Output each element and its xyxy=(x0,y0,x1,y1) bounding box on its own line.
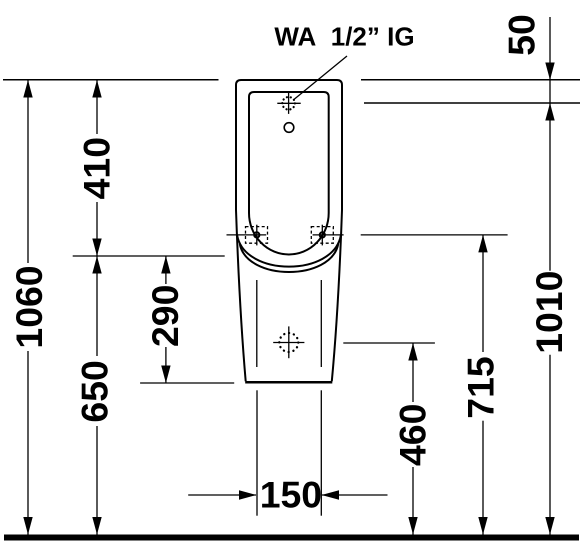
arrow 1010 bottom xyxy=(545,517,554,535)
rim underside lower curve xyxy=(240,244,338,272)
arrow 650 top xyxy=(92,256,101,274)
arrow 150 right xyxy=(322,490,340,499)
water inlet crosshair WA xyxy=(277,92,300,114)
extension line 150 right xyxy=(320,390,322,515)
spigot hidden line left xyxy=(256,280,258,367)
arrow 290 bottom xyxy=(161,366,170,384)
mounting hole left xyxy=(246,225,268,246)
spigot hidden line right xyxy=(320,280,322,367)
arrow 460 bottom xyxy=(408,517,417,535)
svg-text:50: 50 xyxy=(501,14,543,56)
svg-text:650: 650 xyxy=(74,360,116,422)
svg-text:460: 460 xyxy=(391,404,433,466)
dimension line 50-1010 xyxy=(549,17,551,535)
extension line 150 left xyxy=(256,390,258,515)
arrow 50 down xyxy=(545,63,554,81)
arrow 150 left xyxy=(239,490,257,499)
dimension line 715 xyxy=(482,235,484,535)
arrow 290 top xyxy=(161,256,170,274)
svg-text:WA 1/2” IG: WA 1/2” IG xyxy=(274,21,414,51)
flush hole crosshair xyxy=(273,326,304,358)
extension line 715 top xyxy=(361,234,508,236)
urinal outer body silhouette xyxy=(236,80,342,210)
arrow 410 top xyxy=(92,80,101,98)
dimension line 1060 xyxy=(27,80,29,535)
mounting hole right xyxy=(311,225,333,246)
arrow 650 bottom xyxy=(92,517,101,535)
dimension line 460 xyxy=(412,343,414,535)
wall top line right xyxy=(361,79,580,81)
svg-text:410: 410 xyxy=(76,137,118,199)
arrow 715 top xyxy=(478,235,487,253)
mounting hole axis line right short xyxy=(313,234,344,236)
rim underside upper curve xyxy=(237,236,341,267)
extension line flush hole right xyxy=(343,342,435,344)
arrow 715 bottom xyxy=(478,517,487,535)
mounting hole axis line left xyxy=(227,234,267,236)
urinal body right taper xyxy=(332,210,342,381)
floor line xyxy=(4,535,579,541)
dimension line 410-650 xyxy=(96,80,98,535)
svg-text:290: 290 xyxy=(144,285,186,347)
arrow 1060 top xyxy=(23,80,32,98)
urinal inner rim xyxy=(249,92,329,255)
arrow 1060 bottom xyxy=(23,517,32,535)
dimension line 290 xyxy=(165,256,167,383)
wall second line right xyxy=(364,102,580,104)
svg-text:715: 715 xyxy=(460,356,502,418)
arrow 460 top xyxy=(408,343,417,361)
extension line rim bottom left xyxy=(73,255,225,257)
svg-text:150: 150 xyxy=(260,473,322,515)
svg-text:1060: 1060 xyxy=(8,265,50,348)
arrow 410 bottom xyxy=(92,239,101,257)
arrow 1010 top xyxy=(545,103,554,121)
leader line WA xyxy=(294,56,347,99)
dimension line 150 xyxy=(188,494,387,496)
overflow hole circle xyxy=(284,123,294,133)
urinal body bottom edge xyxy=(245,381,332,384)
svg-text:1010: 1010 xyxy=(528,271,570,354)
wall top line left xyxy=(3,79,219,81)
urinal body left taper xyxy=(236,210,246,381)
extension line body bottom left xyxy=(140,382,234,384)
